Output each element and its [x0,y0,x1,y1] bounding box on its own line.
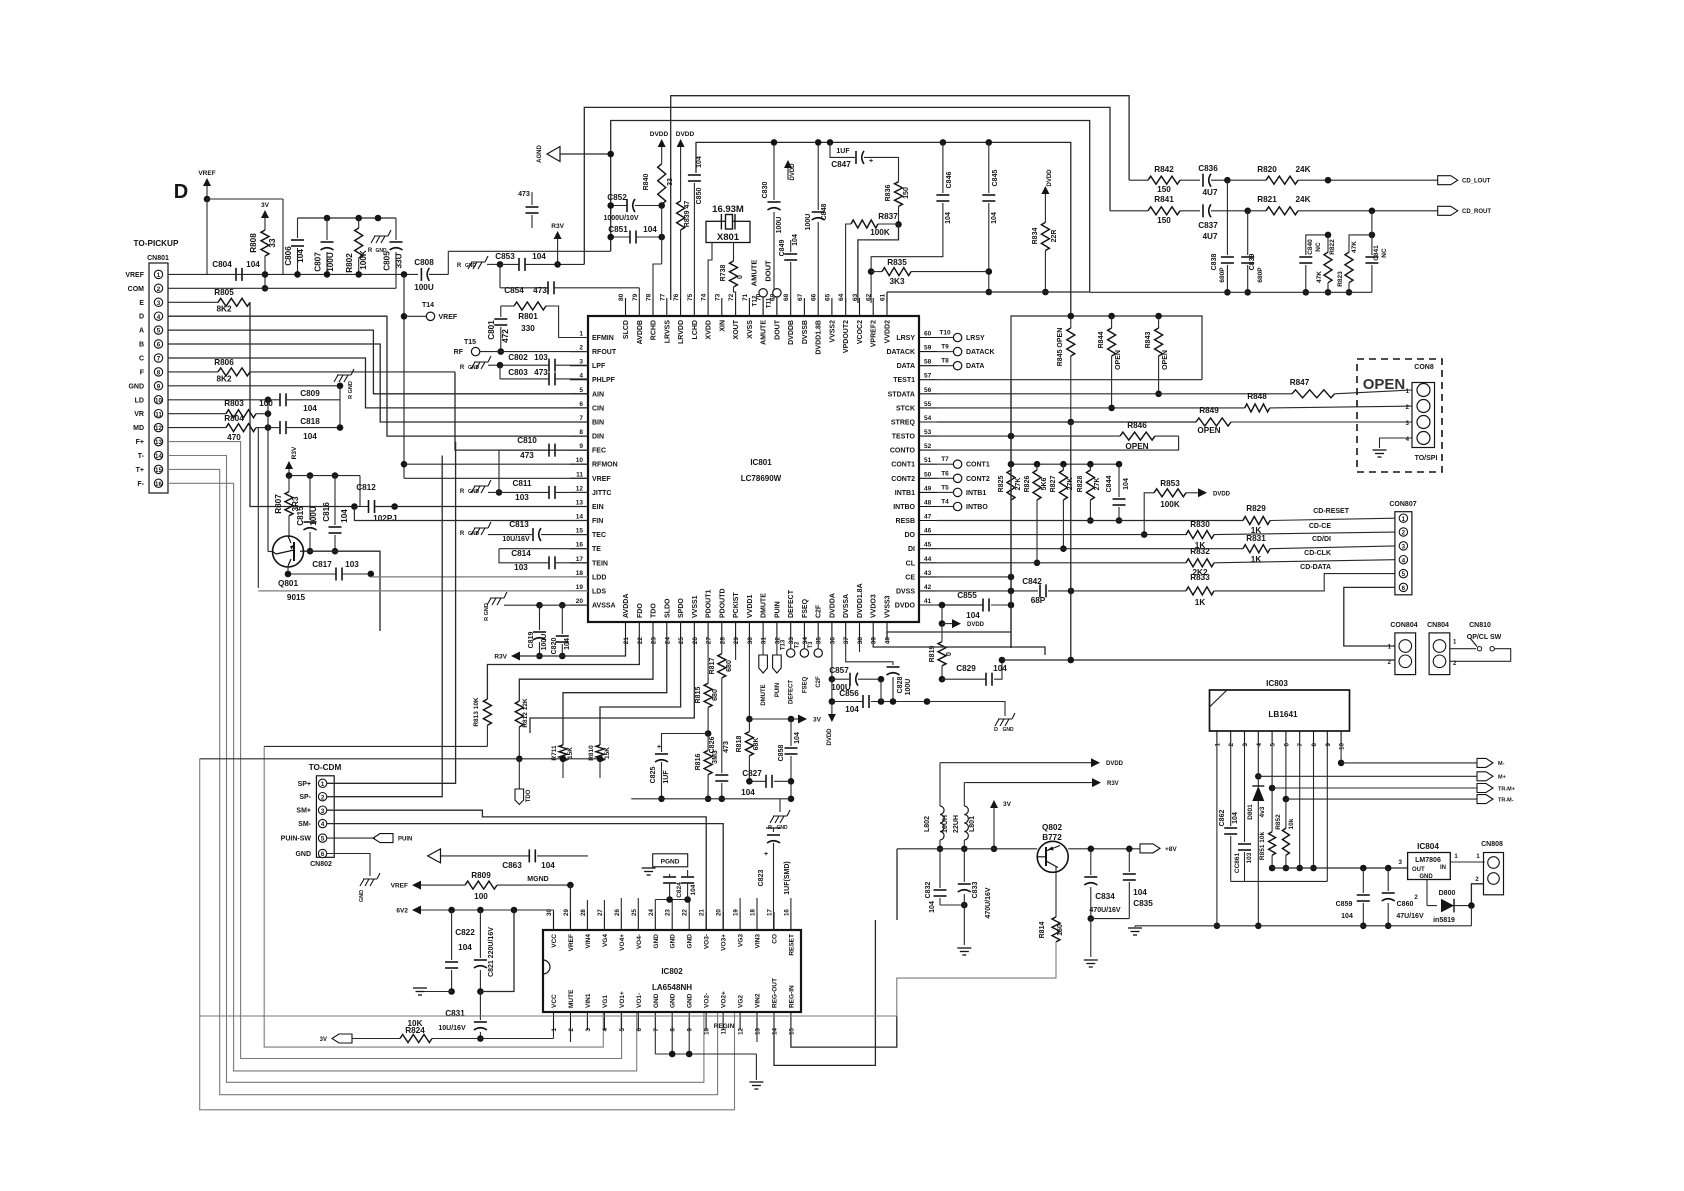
op-amp U IC802 LA6548NH driver box [543,930,801,1012]
svg-text:R807: R807 [274,494,283,514]
svg-text:C825: C825 [650,767,657,784]
svg-text:D: D [139,314,144,321]
svg-text:27: 27 [597,909,604,916]
svg-text:GND: GND [1002,727,1014,733]
svg-text:BIN: BIN [592,420,604,427]
svg-text:CIN: CIN [592,405,604,412]
svg-text:10UH: 10UH [942,815,949,833]
node T11 test point [766,289,782,316]
wire DATA row 58 [937,358,984,371]
svg-text:AVDDA: AVDDA [623,594,630,618]
wire TESTO row 53 and resistor R846 OPEN [937,421,1179,451]
svg-text:VO4+: VO4+ [619,934,626,951]
svg-text:103: 103 [534,353,548,362]
resistor R820 24K [1227,165,1437,184]
wire decoupling bank top row [298,215,397,222]
svg-text:4: 4 [157,314,161,321]
wire CD-RESET row resistor R829 1K [1119,504,1395,535]
svg-text:FSEQ: FSEQ [802,598,809,618]
capacitor C837 4U7 [1198,204,1251,241]
svg-text:24: 24 [648,909,655,916]
svg-text:PHLPF: PHLPF [592,377,616,384]
node PUIN flag pin32 [773,640,782,697]
svg-text:13: 13 [755,1027,762,1034]
capacitor C827 104 [741,769,791,797]
svg-text:FIN: FIN [592,518,603,525]
svg-text:R: R [460,531,465,537]
svg-text:15K: 15K [604,747,611,759]
svg-text:65: 65 [824,293,831,301]
svg-text:DMUTE: DMUTE [761,593,768,618]
svg-text:XVDD: XVDD [706,320,713,339]
svg-text:CD_ROUT: CD_ROUT [1462,209,1491,215]
svg-text:3K3: 3K3 [889,277,904,286]
svg-text:8: 8 [579,429,583,436]
svg-text:R804: R804 [224,414,244,423]
wire LDD row pin18 [371,576,588,578]
capacitor C824 104 pair [663,870,697,900]
resistor R826 5K6 [1024,464,1048,566]
svg-text:59: 59 [924,345,932,352]
svg-text:SLDO: SLDO [664,598,671,618]
crystal X801 16.93M [706,204,750,298]
resistor R843 OPEN [1145,313,1169,397]
svg-text:56: 56 [924,387,932,394]
svg-text:REGIN: REGIN [714,1023,735,1030]
svg-text:CD-DATA: CD-DATA [1300,564,1331,571]
transistor Q802 B772 [1037,823,1068,872]
wire EIN row pin13 [375,506,589,508]
ground for CON8 pin4 [1373,438,1413,457]
svg-text:CC861: CC861 [1234,852,1241,873]
svg-text:DEFECT: DEFECT [789,680,795,704]
svg-text:VPDOUT2: VPDOUT2 [843,320,850,353]
svg-text:104: 104 [945,212,952,224]
resistor R844 OPEN [1098,313,1122,412]
capacitor CC861 103 [1234,745,1253,881]
capacitor C850 104 [688,156,703,298]
svg-text:T8: T8 [941,358,949,365]
svg-text:C853: C853 [495,252,515,261]
svg-text:SM-: SM- [298,821,312,828]
svg-text:M+: M+ [1498,775,1506,781]
svg-text:C811: C811 [512,479,532,488]
inductor L802 10UH [924,763,949,852]
svg-text:CD-CLK: CD-CLK [1304,550,1331,557]
svg-text:IN: IN [1440,865,1446,871]
svg-text:41: 41 [924,598,932,605]
svg-text:473: 473 [518,191,530,198]
svg-text:C851: C851 [608,225,628,234]
wire D row to DIN pin8 [168,316,588,436]
svg-text:DVDD: DVDD [1047,169,1053,187]
svg-text:104: 104 [1123,478,1130,490]
svg-text:VG4: VG4 [602,934,609,947]
svg-text:C848: C848 [821,204,828,221]
wire collector row right of Q801 [300,551,380,631]
wire TEST1 row 57 [937,379,1202,381]
svg-text:VG3: VG3 [738,934,745,947]
svg-text:R840: R840 [643,174,650,191]
wire F- row down bundle to IC802 pin6 [168,483,637,1071]
svg-text:VCC: VCC [551,934,558,948]
svg-text:VIN4: VIN4 [585,934,592,949]
wire REG-OUT loop [774,920,875,1065]
svg-text:R815: R815 [695,687,702,704]
capacitor C804 104 [212,260,260,281]
svg-text:2: 2 [1228,742,1235,746]
svg-text:DVDD1.8B: DVDD1.8B [816,320,823,355]
svg-text:TDO: TDO [651,603,658,618]
svg-text:GND: GND [653,934,660,949]
svg-text:1K: 1K [1195,598,1206,607]
connector CN808 [1475,841,1503,895]
svg-text:R829: R829 [1246,504,1266,513]
svg-text:GND: GND [359,890,365,902]
svg-text:64: 64 [838,293,845,301]
svg-text:CON804: CON804 [1390,622,1417,629]
svg-text:TO/SPI: TO/SPI [1415,455,1438,462]
svg-text:104: 104 [690,884,697,895]
svg-text:INTB1: INTB1 [966,490,986,497]
power 3V arrow above rail [990,800,1012,852]
wire TDO row pin23 to R812 [519,640,653,701]
svg-text:1000U/10V: 1000U/10V [603,215,638,222]
ground R GND for AVSSA [484,592,540,621]
svg-text:M-: M- [1498,761,1505,767]
wire INTB1 row 49 test point T5 [937,484,986,497]
svg-text:R822: R822 [1329,239,1336,255]
svg-text:VVDO3: VVDO3 [871,594,878,618]
resistor R809 100 VREF MGND [391,871,574,930]
svg-text:100: 100 [474,892,488,901]
power R3V arrow above R807 [285,446,298,476]
svg-text:680: 680 [712,689,719,701]
svg-text:R824: R824 [405,1026,425,1035]
svg-text:680P: 680P [1219,267,1226,283]
svg-text:DI: DI [908,546,915,553]
wire bundle line R813 row to IC802 pin4 [264,746,603,1047]
svg-text:33U: 33U [395,253,404,268]
svg-text:T9: T9 [941,344,949,351]
svg-text:R845 OPEN: R845 OPEN [1057,328,1064,367]
svg-text:104: 104 [541,861,555,870]
capacitor C825 1UF electrolytic [650,734,708,803]
svg-text:GND: GND [1419,874,1433,880]
svg-text:FEC: FEC [592,448,606,455]
capacitor C806 104 [284,218,305,278]
wire GND top pins PGND [655,896,691,912]
svg-text:3V: 3V [1003,801,1012,808]
svg-text:NC: NC [1315,242,1322,252]
resistor R853 100K to DVDD [1141,479,1231,538]
wire LRSY row 60 [937,330,985,343]
svg-text:GND: GND [687,934,694,949]
svg-text:CN808: CN808 [1481,841,1503,848]
wire base feed vertical to Q801 [267,400,269,552]
svg-text:R802: R802 [345,253,354,273]
node CD_LOUT output flag [1438,176,1491,185]
wire Q802 collector to +8V flag [1068,844,1177,853]
resistor R824 10K with 3V flag [320,1019,554,1043]
svg-text:C806: C806 [284,246,293,266]
resistor R803 100 [168,399,273,418]
svg-text:VREF: VREF [439,314,458,321]
svg-text:104: 104 [966,611,980,620]
svg-text:VO3+: VO3+ [721,934,728,951]
svg-text:PUIN: PUIN [775,683,781,697]
svg-text:R738: R738 [720,265,727,282]
svg-text:37: 37 [843,637,850,645]
svg-text:23: 23 [665,909,672,916]
svg-text:C847: C847 [831,160,851,169]
wire PCKIST pin29 stub [735,640,737,660]
svg-text:LC78690W: LC78690W [741,474,782,483]
svg-text:C813: C813 [509,520,529,529]
svg-text:58: 58 [924,359,932,366]
svg-text:42: 42 [924,584,932,591]
node TDO flag below R812 [515,759,532,805]
svg-text:RFMON: RFMON [592,462,618,469]
svg-text:C863: C863 [502,861,522,870]
capacitor C810 473 [496,436,588,496]
wire Q802 base to R814 [1055,866,1057,917]
IC801 bottom pins 21-40 stubs, numbers and names [623,583,892,644]
svg-text:R GND: R GND [348,381,354,399]
svg-text:C809: C809 [300,389,320,398]
svg-text:61: 61 [880,293,887,301]
svg-text:7: 7 [653,1027,660,1031]
ground R GND hatch above LD row [334,369,354,399]
capacitor C816 104 [322,476,349,555]
diode D801 4v3 zener [1247,745,1266,929]
svg-text:R846: R846 [1127,421,1147,430]
svg-text:104: 104 [296,249,305,263]
svg-text:AMUTE: AMUTE [750,260,759,287]
svg-text:VVSS2: VVSS2 [829,320,836,343]
capacitor C840 NC [1299,235,1328,296]
wire CN808 pin2 to D800 [1471,884,1483,906]
svg-text:R821: R821 [1257,195,1277,204]
svg-text:50: 50 [924,471,932,478]
svg-text:C844: C844 [1106,476,1113,493]
connector CON8 dashed OPEN box TO/SPI [1357,359,1442,472]
svg-text:25: 25 [631,909,638,916]
op-amp U IC803 LB1641 motor driver box [1210,679,1350,731]
svg-text:13: 13 [576,500,584,507]
svg-text:2: 2 [579,345,583,352]
svg-text:680P: 680P [1257,267,1264,283]
svg-text:LD: LD [135,397,144,404]
svg-text:150: 150 [1057,924,1064,936]
svg-text:C859: C859 [1336,901,1353,908]
svg-text:PUIN-SW: PUIN-SW [281,836,312,843]
ground GND hatch below CN802 [327,854,380,903]
svg-text:52: 52 [924,443,932,450]
node T13 DEFECT test point pin33 [781,639,795,704]
svg-text:104: 104 [1133,888,1147,897]
svg-text:104: 104 [696,156,703,168]
svg-text:6: 6 [579,401,583,408]
svg-text:22: 22 [637,637,644,645]
svg-text:43: 43 [924,570,932,577]
svg-text:R808: R808 [249,233,258,253]
svg-text:62: 62 [866,293,873,301]
wire GND row CN801 pin9 [168,383,343,390]
svg-text:150: 150 [1157,185,1171,194]
svg-text:F: F [140,369,145,376]
node T3 C2F test point pin35 [808,640,822,688]
svg-text:VO2-: VO2- [704,993,711,1008]
svg-text:IC802: IC802 [661,967,683,976]
regulator IC804 LM7806 [1408,842,1451,880]
svg-text:MUTE: MUTE [568,989,575,1008]
svg-text:CN801: CN801 [147,255,169,262]
svg-text:5K6: 5K6 [1041,477,1048,490]
svg-text:SM+: SM+ [296,808,311,815]
svg-text:102PJ: 102PJ [373,514,397,523]
svg-text:4v3: 4v3 [1259,806,1266,817]
svg-text:DVDD: DVDD [676,131,695,138]
power DVDD down arrow [827,702,836,746]
wire VG4 pin27 stub [603,900,605,912]
resistor R812 12K [515,698,529,762]
svg-text:54: 54 [924,415,932,422]
svg-text:100U: 100U [541,634,548,651]
svg-text:4U7: 4U7 [1202,232,1217,241]
power DVDD arrow above R839 [676,131,695,201]
svg-text:3: 3 [1402,544,1406,551]
resistor R817 680 [709,640,733,773]
wire E row riser to EIN row [250,302,352,506]
wire to CON804 pin2 [1002,659,1395,661]
wire VVDO3 pin39 staircase [873,640,1045,655]
wire riser x1070 C842 [1070,422,1072,660]
svg-text:C816: C816 [322,502,331,522]
svg-text:DVDD: DVDD [827,728,833,746]
wire rail riser [896,849,898,920]
wire VIN2 pin13 stub [756,1030,758,1042]
node AGND flag [537,145,614,163]
svg-text:XOUT: XOUT [733,319,740,339]
svg-text:C2F: C2F [816,604,823,618]
svg-text:INTB1: INTB1 [895,490,915,497]
svg-text:104: 104 [991,212,998,224]
svg-text:JITTC: JITTC [592,490,611,497]
svg-text:VIN1: VIN1 [585,993,592,1008]
svg-text:C834: C834 [1095,892,1115,901]
ground R GND for JITTC [460,480,499,495]
svg-text:R3V: R3V [494,654,507,661]
svg-text:D: D [174,181,188,203]
svg-text:INTBO: INTBO [893,504,915,511]
resistor R818 68K with 3V arrow [736,640,822,785]
ground R GND near C853 [457,256,488,269]
capacitor C813 10U/16V [502,520,588,543]
svg-text:23: 23 [651,637,658,645]
svg-text:Q801: Q801 [278,579,298,588]
svg-text:AVSSA: AVSSA [592,603,616,610]
svg-text:C837: C837 [1198,221,1218,230]
svg-text:F+: F+ [136,439,144,446]
svg-text:470U/16V: 470U/16V [1089,907,1120,914]
wire SP- row riser [327,456,442,797]
transistor Q801 9015 [273,536,306,602]
capacitor C836 4U7 [1198,164,1230,197]
svg-text:C840: C840 [1307,239,1314,255]
svg-text:TEIN: TEIN [592,560,608,567]
wire R807 top row [286,472,360,506]
wire VIN4 pin28 stub [586,900,588,912]
capacitor C838 680P [1211,180,1234,295]
svg-text:6: 6 [1283,742,1290,746]
svg-text:C850: C850 [696,188,703,205]
svg-text:C833: C833 [972,882,979,899]
connector CON804 [1388,622,1418,675]
svg-text:F-: F- [137,481,144,488]
capacitor C851 104 [607,225,665,244]
capacitor C829 104 [942,657,1007,686]
resistor R802 100K [345,218,368,278]
wire F+ row down bundle to IC802 pin5 [168,442,622,1059]
svg-text:33: 33 [268,238,277,248]
svg-text:R813 10K: R813 10K [473,697,480,727]
resistor R711 15K [551,745,574,778]
svg-text:C845: C845 [992,170,999,187]
svg-text:REG-OUT: REG-OUT [772,978,779,1008]
svg-text:GND: GND [295,851,311,858]
wire pins 7 8 to OUT bus [1296,745,1316,871]
svg-text:31: 31 [761,637,768,645]
resistor R841 150 [1110,195,1200,225]
svg-text:C821 220U/16V: C821 220U/16V [488,927,495,977]
svg-text:R849: R849 [1199,406,1219,415]
svg-text:C818: C818 [300,417,320,426]
wire MUTE pin2 stub [570,1030,572,1042]
svg-text:74: 74 [701,293,708,301]
wire RESET pin16 stub [790,898,792,912]
svg-text:T11: T11 [766,297,773,308]
svg-text:VG1: VG1 [602,995,609,1008]
wire DI row 45 resistor R831 1K CD/DI [937,534,1395,564]
svg-text:473: 473 [723,741,730,753]
power DVDD arrow right below C855 [939,605,985,628]
svg-text:3: 3 [321,808,325,815]
svg-text:1: 1 [1214,742,1221,746]
svg-text:14: 14 [155,453,162,460]
node CD_ROUT output flag [1438,206,1492,215]
svg-text:47K: 47K [1316,271,1323,283]
svg-text:10: 10 [704,1027,711,1034]
svg-text:R823: R823 [1337,271,1344,287]
resistor R816 3M3 [695,734,719,803]
svg-text:C802: C802 [508,353,528,362]
svg-text:1: 1 [1402,516,1406,523]
svg-text:C829: C829 [956,664,976,673]
node T14 VREF vertical wire [401,271,408,478]
wire SM+ row to IC802 pin21 [327,810,706,930]
svg-text:D: D [994,727,998,733]
svg-text:VO1-: VO1- [636,993,643,1008]
power DVDD small arrow near C830 [784,160,796,181]
connector CN804 [1427,622,1457,675]
svg-text:5: 5 [1270,742,1277,746]
svg-text:DOUT: DOUT [774,319,781,340]
svg-text:11: 11 [576,471,583,478]
svg-text:SP-: SP- [299,794,311,801]
capacitor C833 470U/16V electrolytic [957,849,992,955]
svg-text:470U/16V: 470U/16V [985,887,992,918]
